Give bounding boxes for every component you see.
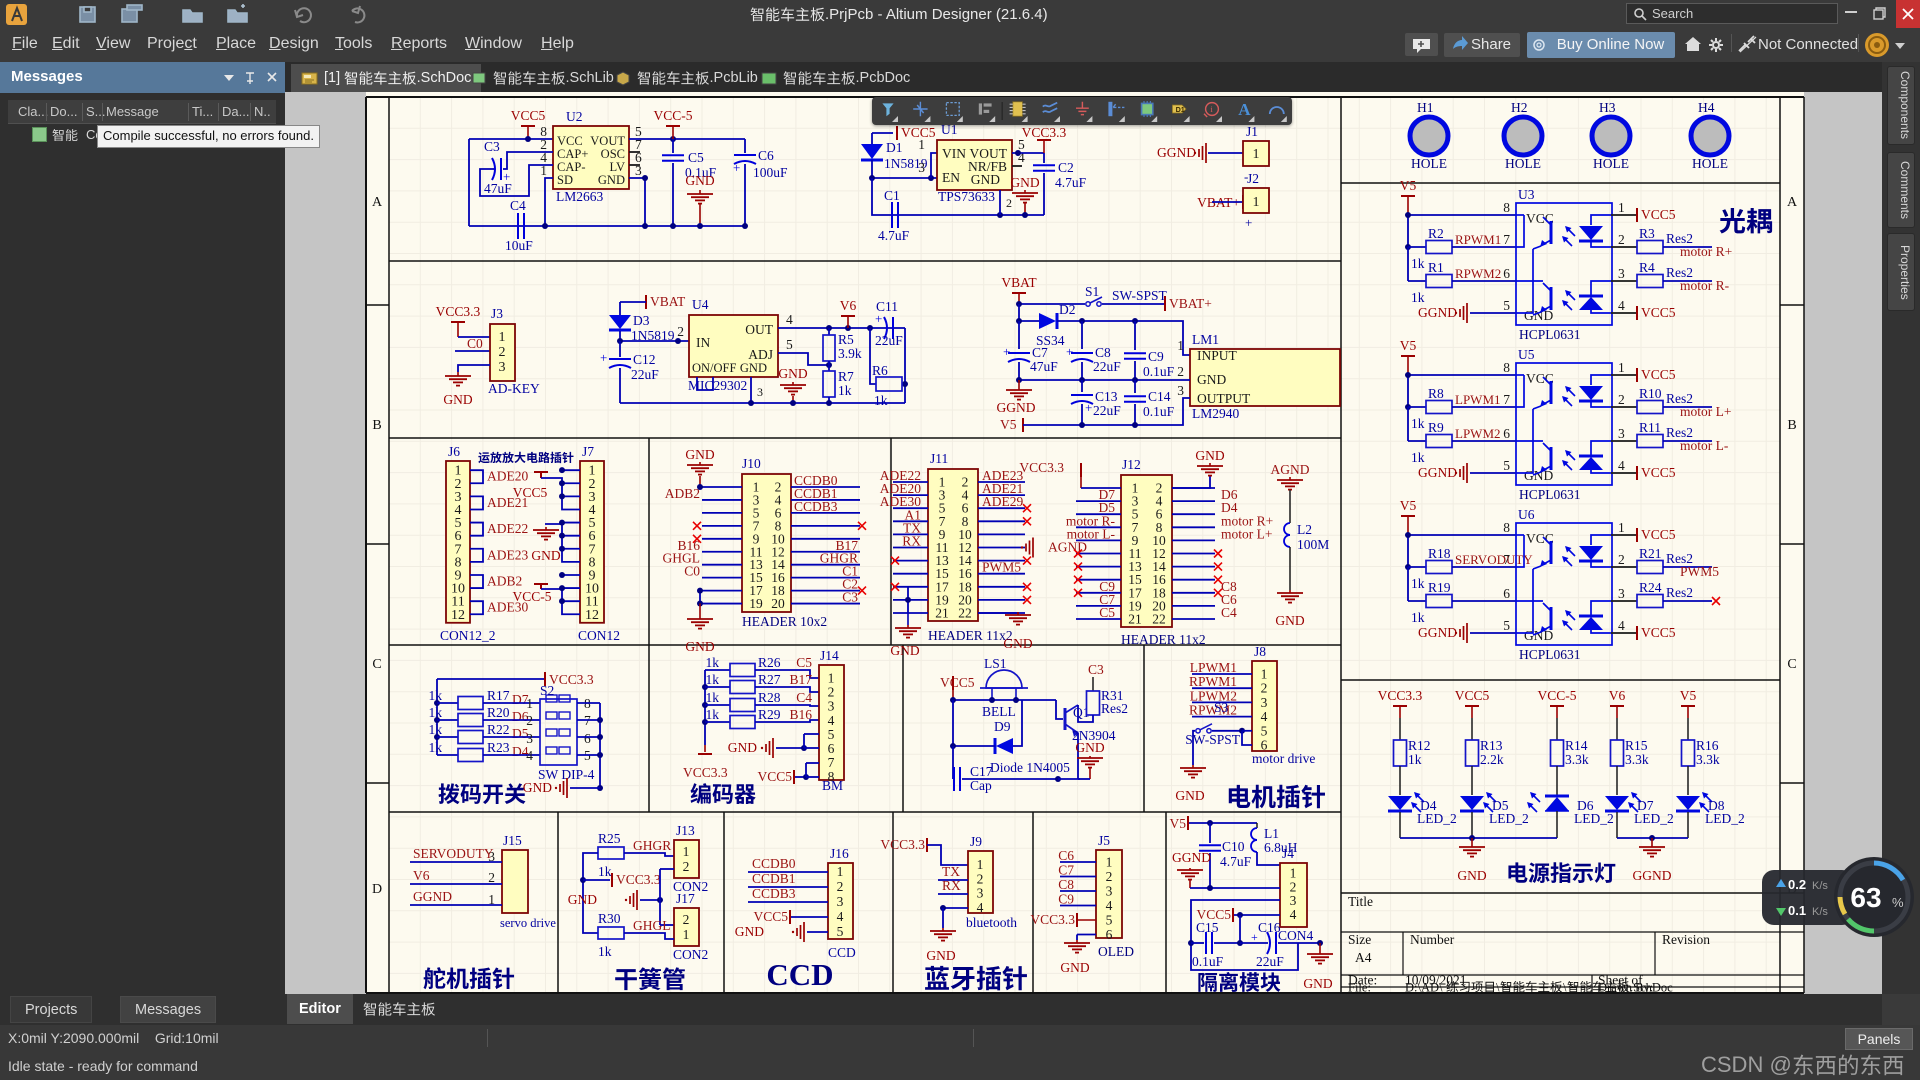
svg-text:VCC5: VCC5 (1641, 465, 1676, 480)
svg-text:C10: C10 (1222, 839, 1245, 854)
power VCC5 pin4 (U6) (1611, 625, 1676, 640)
wire Q1 emitter (1077, 733, 1079, 779)
sheet border frame (366, 97, 1804, 993)
diode D2 SS34 (1036, 302, 1076, 348)
svg-text:GND: GND (1457, 868, 1486, 883)
wire pin1 down (545, 178, 553, 226)
svg-text:CON2: CON2 (673, 947, 708, 962)
svg-text:C2: C2 (1058, 160, 1074, 175)
svg-text:1: 1 (683, 844, 690, 859)
svg-text:22uF: 22uF (1093, 359, 1121, 374)
svg-text:8: 8 (1503, 360, 1510, 375)
net label GHGL (624, 918, 674, 939)
svg-text:VCC3.3: VCC3.3 (616, 872, 661, 887)
svg-text:TX: TX (942, 864, 960, 879)
svg-text:3.3k: 3.3k (1625, 752, 1649, 767)
wire J12 pin2 GND (1172, 476, 1210, 488)
svg-text:1k: 1k (598, 944, 612, 959)
svg-text:RPWM1: RPWM1 (1455, 232, 1501, 247)
svg-text:B: B (1787, 418, 1796, 433)
svg-text:+: + (1066, 344, 1073, 359)
svg-text:6: 6 (1503, 586, 1510, 601)
resistor R18 1k (1408, 546, 1452, 591)
capacitor C2 4.7uF (1033, 153, 1087, 215)
svg-text:K/s: K/s (1812, 880, 1828, 892)
ground GND (J14) (728, 734, 819, 758)
svg-text:CCDB0: CCDB0 (752, 856, 796, 871)
svg-text:J3: J3 (491, 306, 503, 321)
J5 wires C6-C9 (1058, 848, 1096, 907)
svg-text:0.1: 0.1 (1788, 903, 1806, 918)
power VCC-5 (J7) (512, 584, 551, 604)
svg-text:ADE29: ADE29 (982, 494, 1023, 509)
optocoupler U3 HCPL0631 (1503, 187, 1625, 342)
power VCC3.3 (J5) (1030, 912, 1096, 927)
svg-text:V5: V5 (1000, 417, 1017, 432)
svg-text:R1: R1 (1428, 260, 1444, 275)
svg-text:S1: S1 (1085, 284, 1099, 299)
svg-text:+: + (733, 160, 740, 175)
J10 right wires (791, 473, 860, 605)
svg-text:RX: RX (902, 534, 921, 549)
svg-text:Title: Title (1348, 894, 1373, 909)
wire pin4 C3 loop (480, 165, 553, 196)
svg-text:R21: R21 (1639, 546, 1662, 561)
power VCC-5 (LED column) (1537, 688, 1576, 740)
svg-text:GND: GND (685, 639, 714, 654)
connector J5 OLED (1096, 833, 1134, 959)
svg-text:3.9k: 3.9k (838, 346, 862, 361)
svg-text:R11: R11 (1639, 420, 1661, 435)
svg-text:VCC3.3: VCC3.3 (436, 304, 481, 319)
net label B16 (encoder) (755, 707, 819, 722)
svg-text:GND: GND (1275, 613, 1304, 628)
svg-text:CON4: CON4 (1278, 928, 1314, 943)
svg-text:5: 5 (1503, 298, 1510, 313)
svg-text:R26: R26 (758, 655, 781, 670)
svg-text:LPWM1: LPWM1 (1190, 660, 1237, 675)
svg-text:C4: C4 (796, 690, 812, 705)
resistor R30 1k (598, 911, 624, 959)
svg-text:R10: R10 (1639, 386, 1662, 401)
resistor R28 (encoder) (705, 690, 781, 712)
resistor R13 2.2k (1466, 738, 1504, 795)
svg-text:2: 2 (977, 871, 984, 886)
svg-text:0.1uF: 0.1uF (1143, 364, 1175, 379)
svg-text:GHGR: GHGR (633, 838, 671, 853)
ground GND (U2) (685, 173, 714, 226)
svg-text:motor R-: motor R- (1680, 278, 1730, 293)
svg-text:C5: C5 (688, 150, 704, 165)
svg-text:1: 1 (1253, 147, 1260, 162)
svg-text:+: + (600, 350, 607, 365)
svg-text:GND: GND (971, 172, 1000, 187)
svg-text:V5: V5 (1680, 688, 1697, 703)
svg-text:R6: R6 (872, 363, 888, 378)
capacitor C6 100uF (733, 139, 788, 226)
ground GND bottom (J10) (685, 604, 714, 654)
svg-text:1: 1 (1618, 520, 1625, 535)
ground GND (L2) (1275, 590, 1304, 628)
svg-text:1: 1 (526, 696, 533, 711)
wire GND pin2 bottom U1 (872, 178, 1044, 218)
svg-text:GND: GND (443, 392, 472, 407)
svg-text:VCC-5: VCC-5 (653, 108, 692, 123)
svg-text:GND: GND (1195, 448, 1224, 463)
resistor R19 1k (1411, 580, 1452, 625)
power VCC5 (J7) (513, 472, 548, 500)
wire J7 pins5-8 (545, 520, 580, 562)
svg-text:VCC5: VCC5 (1641, 625, 1676, 640)
svg-text:R16: R16 (1696, 738, 1719, 753)
search box (1626, 3, 1838, 24)
svg-text:GGND: GGND (1172, 850, 1211, 865)
svg-text:J17: J17 (676, 891, 695, 906)
svg-text:0.2: 0.2 (1788, 877, 1806, 892)
svg-text:C13: C13 (1095, 389, 1118, 404)
resistor U6 Res2 pin2 (1611, 546, 1712, 574)
ground GGND (U6) (1418, 623, 1516, 643)
net label D4 (S2) (483, 744, 540, 759)
svg-text:2: 2 (1261, 681, 1268, 696)
switch S1 SW-SPST (1085, 284, 1168, 306)
wire V5 rail U3 (1405, 212, 1516, 281)
svg-text:D: D (372, 882, 382, 897)
svg-text:20: 20 (771, 596, 785, 611)
svg-text:2: 2 (1618, 552, 1625, 567)
svg-text:GND: GND (1524, 628, 1553, 643)
connector J10 HEADER 10x2 (742, 456, 827, 629)
svg-text:J12: J12 (1122, 457, 1141, 472)
resistor R23 1k (429, 740, 510, 762)
svg-text:R28: R28 (758, 690, 781, 705)
svg-text:+: + (1245, 215, 1252, 230)
svg-text:3: 3 (1290, 893, 1297, 908)
connector J7 CON12 (578, 444, 620, 643)
svg-text:R24: R24 (1639, 580, 1662, 595)
ground AGND (L2) (1271, 462, 1310, 523)
LED D7 LED_2 (1605, 792, 1674, 838)
junction VCC5-pin8 (525, 136, 531, 142)
svg-text:4: 4 (1290, 907, 1297, 922)
svg-text:21: 21 (1128, 612, 1142, 627)
title 运放放大电路插针 (478, 452, 573, 463)
svg-text:ON/OFF: ON/OFF (692, 361, 737, 375)
capacitor C9 0.1uF (1124, 321, 1175, 380)
svg-text:D1: D1 (886, 140, 903, 155)
svg-text:OUTPUT: OUTPUT (1197, 391, 1251, 406)
resistor U3 Res2 pin2 (1611, 226, 1712, 254)
net label D5 (S2) (483, 726, 540, 741)
svg-text:RX: RX (942, 878, 961, 893)
wire GND rail (LM1) (1016, 377, 1190, 383)
svg-text:HCPL0631: HCPL0631 (1519, 487, 1581, 502)
title CCD (766, 957, 833, 992)
svg-text:VCC5: VCC5 (511, 108, 546, 123)
svg-text:VCC3.3: VCC3.3 (1019, 460, 1064, 475)
power VCC3.3 (J3) (436, 304, 490, 337)
net label C3 (Q1) (1088, 662, 1104, 691)
svg-text:VCC5: VCC5 (1641, 367, 1676, 382)
svg-text:V5: V5 (1400, 498, 1417, 513)
net label C5 (encoder) (755, 655, 819, 678)
IC U4 MIC29302 (688, 297, 793, 399)
resistor R15 3.3k (1611, 738, 1649, 795)
svg-text:VCC3.3: VCC3.3 (1022, 125, 1067, 140)
net label LPWM2 (1452, 426, 1516, 441)
svg-text:1: 1 (683, 927, 690, 942)
svg-text:motor L+: motor L+ (1680, 404, 1731, 419)
svg-text:6: 6 (1503, 426, 1510, 441)
svg-text:19: 19 (749, 596, 763, 611)
diode D3 1N5819 (609, 302, 675, 343)
svg-text:C6: C6 (1058, 848, 1074, 863)
svg-text:H4: H4 (1698, 100, 1715, 115)
svg-text:7: 7 (828, 755, 835, 770)
svg-text:2.2k: 2.2k (1480, 752, 1504, 767)
svg-text:R30: R30 (598, 911, 621, 926)
mounting hole H3 (1592, 100, 1630, 171)
resistor R6 1k (872, 363, 902, 408)
svg-text:motor drive: motor drive (1252, 751, 1315, 766)
ground GND (Q1) (1075, 740, 1104, 779)
power V6 (U4) (840, 298, 857, 328)
svg-text:VCC3.3: VCC3.3 (1030, 912, 1075, 927)
svg-text:HOLE: HOLE (1411, 156, 1447, 171)
svg-text:GGND: GGND (1633, 868, 1672, 883)
svg-text:+: + (1251, 930, 1258, 944)
svg-text:V5: V5 (1400, 338, 1417, 353)
svg-text:1: 1 (1261, 667, 1268, 682)
svg-text:GND: GND (735, 924, 764, 939)
block divider lines (389, 97, 1804, 994)
svg-text:Revision: Revision (1662, 932, 1710, 947)
zone letters (372, 195, 1798, 210)
svg-text:12: 12 (451, 608, 465, 623)
ground GND (J12) (1195, 448, 1224, 476)
svg-text:3: 3 (1177, 383, 1184, 398)
svg-text:1k: 1k (1411, 290, 1425, 305)
wire bell rail (950, 697, 1063, 746)
mounting hole H1 (1410, 100, 1448, 171)
svg-text:File:: File: (1348, 981, 1371, 995)
capacitor C17 Cap (953, 746, 993, 793)
svg-text:PWM5: PWM5 (1680, 564, 1719, 579)
wire EN net (869, 175, 937, 181)
resistor R2 1k (1408, 226, 1452, 271)
capacitor C4 10uF (505, 198, 533, 253)
capacitor C16 22uF (1240, 920, 1323, 969)
wire J5 pin6 GND (1077, 935, 1096, 941)
resistor R25 1k (598, 831, 624, 879)
svg-text:4: 4 (977, 900, 984, 915)
ground GND (J11 pin22) (1003, 612, 1032, 651)
power VCC5 (LED column) (1455, 688, 1490, 740)
svg-text:C3: C3 (1088, 662, 1104, 677)
svg-text:D2: D2 (1059, 302, 1076, 317)
ground AGND (J11) (1021, 538, 1087, 558)
ground GND (U4) (778, 366, 807, 403)
no-ERC J11 right (1023, 504, 1031, 604)
power VCC5 (U1) (872, 125, 936, 140)
svg-text:C: C (1787, 657, 1796, 672)
power VBAT+ (S1) (1165, 296, 1212, 311)
title 拨码开关 (439, 783, 526, 804)
svg-text:GND: GND (1303, 976, 1332, 991)
svg-text:2: 2 (1290, 879, 1297, 894)
svg-text:LPWM2: LPWM2 (1455, 426, 1501, 441)
svg-text:22: 22 (1152, 612, 1166, 627)
svg-text:LM2663: LM2663 (556, 189, 604, 204)
switch S2 SW DIP-4 (526, 683, 594, 782)
svg-text:1: 1 (828, 671, 835, 686)
svg-text:J5: J5 (1098, 833, 1110, 848)
svg-text:1k: 1k (874, 393, 888, 408)
document tabs (285, 62, 1882, 92)
svg-text:ADB2: ADB2 (665, 486, 700, 501)
wire J7 pins9-12 (541, 572, 580, 614)
power V5 (U3) (1400, 178, 1417, 215)
svg-text:4.7uF: 4.7uF (878, 228, 910, 243)
connector J11 HEADER 11x2 (928, 451, 1013, 643)
mounting hole H2 (1504, 100, 1542, 171)
svg-text:IN: IN (696, 335, 710, 350)
power VCC3.3 (S2) (437, 672, 594, 687)
svg-text:V5: V5 (1400, 178, 1417, 193)
resistor R8 1k (1408, 386, 1452, 431)
svg-text:GND: GND (1003, 636, 1032, 651)
wire pin2 to C3 (503, 152, 553, 169)
svg-text:Res2: Res2 (1666, 585, 1693, 600)
svg-text:GND: GND (926, 948, 955, 963)
svg-text:GGND: GGND (1418, 305, 1457, 320)
connector J14 BM (819, 648, 844, 793)
net label D7 (S2) (483, 692, 540, 707)
IC U2 LM2663 (540, 109, 642, 204)
svg-text:1k: 1k (1411, 610, 1425, 625)
svg-text:J1: J1 (1246, 124, 1258, 139)
svg-text:C0: C0 (467, 336, 483, 351)
svg-text:R20: R20 (487, 705, 510, 720)
svg-text:2: 2 (526, 713, 533, 728)
svg-text:5: 5 (786, 337, 793, 352)
svg-text:C4: C4 (1221, 605, 1237, 620)
net label PWM5 (1680, 564, 1719, 579)
svg-text:1: 1 (1290, 866, 1297, 881)
messages panel (0, 62, 285, 994)
svg-text:GND: GND (1524, 468, 1553, 483)
svg-text:7: 7 (1503, 552, 1510, 567)
svg-text:%: % (1892, 895, 1904, 910)
title 舵机插针 (423, 967, 514, 989)
title 蓝牙插针 (925, 966, 1027, 991)
ground GGND (U5) (1418, 463, 1516, 483)
svg-text:HOLE: HOLE (1505, 156, 1541, 171)
net label motor R- (1680, 278, 1730, 293)
svg-text:1k: 1k (706, 672, 720, 687)
svg-text:GND: GND (1010, 175, 1039, 190)
svg-text:GND: GND (728, 740, 757, 755)
svg-text:\: \ (1496, 981, 1500, 995)
svg-text:2: 2 (683, 859, 690, 874)
svg-text:1k: 1k (1411, 256, 1425, 271)
svg-text:servo drive: servo drive (500, 916, 556, 930)
ground GND (J5) (1060, 940, 1090, 975)
svg-text:J16: J16 (830, 846, 849, 861)
svg-text:J10: J10 (742, 456, 761, 471)
svg-text:SERVODUTY: SERVODUTY (1455, 552, 1533, 567)
ground GND (J16) (735, 922, 828, 942)
svg-text:LED_2: LED_2 (1574, 811, 1614, 826)
svg-text:22uF: 22uF (1256, 954, 1284, 969)
svg-text:1k: 1k (429, 722, 443, 737)
capacitor C5 0.1uF (662, 139, 717, 226)
svg-text:LED_2: LED_2 (1489, 811, 1529, 826)
svg-text:3: 3 (837, 894, 844, 909)
svg-text:EN: EN (942, 170, 960, 185)
svg-text:GGND: GGND (1157, 145, 1196, 160)
svg-text:U4: U4 (692, 297, 709, 312)
svg-text:R8: R8 (1428, 386, 1444, 401)
svg-text:3: 3 (1618, 426, 1625, 441)
title 电机插针 (1229, 785, 1325, 809)
ground GND (reed) (568, 869, 674, 925)
resistor U5 Res2 pin3 (1611, 420, 1712, 448)
svg-text:D1: D1 (1176, 105, 1185, 114)
menu bar (0, 28, 1920, 62)
ground GND (J11 bottom left) (890, 613, 921, 658)
svg-text:10uF: 10uF (505, 238, 533, 253)
ground GND (J9) (926, 928, 956, 963)
wire V5 rail U5 (1405, 372, 1516, 441)
svg-text:3: 3 (1261, 695, 1268, 710)
connector J1 (1243, 124, 1269, 166)
power VCC5 (U2) (511, 108, 546, 139)
svg-text:5: 5 (1261, 723, 1268, 738)
no-ERC J12 right (1214, 550, 1222, 597)
wire D2 to LM1 INPUT (1057, 318, 1190, 355)
svg-text:VOUT: VOUT (590, 134, 625, 148)
svg-text:2: 2 (488, 870, 495, 885)
svg-text:.SchDoc: .SchDoc (1630, 981, 1673, 995)
net label (1452, 600, 1516, 602)
svg-text:C9: C9 (1148, 349, 1164, 364)
svg-text:3: 3 (918, 160, 925, 175)
resistor R20 1k (429, 705, 510, 727)
svg-text:LED_2: LED_2 (1634, 811, 1674, 826)
capacitor C7 47uF (1003, 321, 1058, 380)
svg-text:2: 2 (1177, 364, 1184, 379)
optocoupler U5 HCPL0631 (1503, 347, 1625, 502)
wire VBAT-J2 (1212, 201, 1243, 203)
IC U1 TPS73633 (937, 122, 1025, 204)
J16 wires (748, 856, 828, 902)
power V5 (iso) (1170, 816, 1258, 831)
svg-text:22: 22 (958, 606, 972, 621)
svg-text:100uF: 100uF (753, 165, 788, 180)
svg-text:R27: R27 (758, 672, 781, 687)
svg-text:5: 5 (1503, 458, 1510, 473)
svg-text:R3: R3 (1639, 226, 1655, 241)
ground GND (LEDs) (1457, 838, 1486, 883)
svg-text:GGND: GGND (997, 400, 1036, 415)
ground GND (J7) (531, 527, 560, 563)
svg-text:R12: R12 (1408, 738, 1431, 753)
svg-text:AGND: AGND (1271, 462, 1310, 477)
svg-text:VCC5: VCC5 (757, 769, 792, 784)
capacitor C11 22uF (875, 299, 903, 348)
svg-text:0.1uF: 0.1uF (1192, 954, 1224, 969)
